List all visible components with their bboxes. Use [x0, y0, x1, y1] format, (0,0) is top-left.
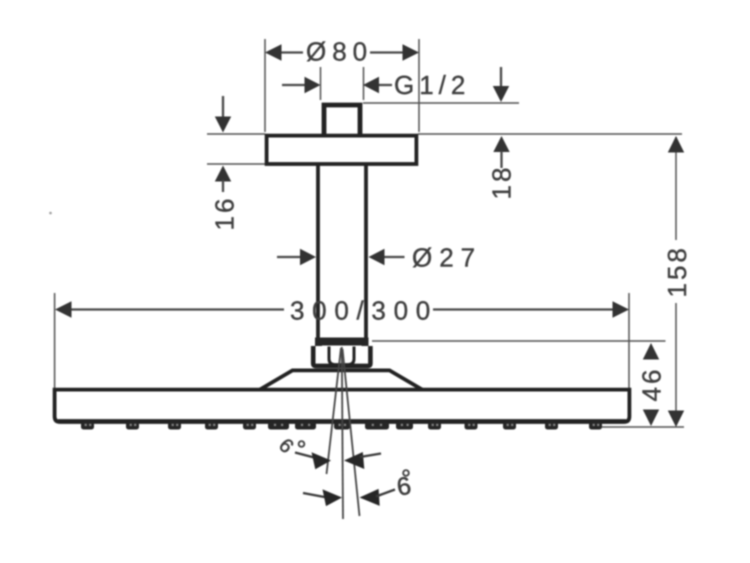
- dimension 300/300 extension line right: [628, 293, 630, 390]
- lower 6-degree right leader: [376, 490, 395, 497]
- dimension 300/300 arrow right: [613, 301, 630, 317]
- dimension Ø80 dimension line: [280, 51, 303, 53]
- upper 6-degree right leader: [360, 454, 381, 458]
- flange bottom reference line left: [207, 163, 265, 165]
- dimension Ø80 extension line right: [418, 39, 420, 132]
- svg-text:16: 16: [210, 196, 240, 231]
- nozzle face dots: [85, 424, 600, 426]
- ball joint insert: [329, 347, 354, 365]
- dimension Ø80 extension line left: [264, 39, 266, 132]
- dimension Ø80 arrow left: [265, 44, 282, 60]
- svg-text:°: °: [401, 465, 411, 493]
- stray printing speck: [49, 212, 52, 215]
- shower head bottom face (thicker): [58, 419, 626, 423]
- upper 6-degree right arrowhead: [344, 452, 364, 469]
- dimension 18 upper arrow (down): [500, 67, 502, 87]
- lower 6-degree left leader: [303, 493, 327, 498]
- shower arm pipe left wall: [316, 165, 320, 339]
- shower head body: [55, 390, 630, 422]
- svg-text:300/300: 300/300: [290, 295, 438, 325]
- ceiling flange plate: [267, 136, 417, 164]
- spray left 6-degree line: [327, 348, 342, 474]
- svg-text:Ø27: Ø27: [412, 243, 482, 273]
- svg-text:°: °: [297, 436, 307, 464]
- lower 6-degree right arrowhead: [360, 489, 380, 506]
- collar crimp right: [362, 345, 369, 349]
- dimension Ø80 arrow right: [403, 44, 420, 60]
- bottom reference line (46/158): [602, 426, 684, 428]
- dimension 16 upper arrow (down): [222, 96, 224, 118]
- shower arm pipe right wall: [364, 165, 368, 339]
- svg-text:Ø80: Ø80: [306, 37, 373, 67]
- dimension G1/2 arrow right: [363, 77, 379, 93]
- dimension G1/2 extension line right: [363, 67, 365, 100]
- dimension 46 upper arrow (up): [643, 343, 659, 360]
- dimension 18 lower arrow (up): [493, 136, 509, 152]
- swivel nut: [313, 346, 370, 366]
- dimension 300/300 arrow left: [55, 301, 72, 317]
- dimension 300/300 dimension line: [70, 308, 284, 310]
- spray centre line: [342, 347, 343, 519]
- svg-text:46: 46: [637, 367, 667, 402]
- collar crimp left: [315, 345, 322, 349]
- dimension Ø27 arrow right: [369, 249, 385, 265]
- dimension G1/2 extension line left: [320, 67, 322, 100]
- dimension 158 upper arrow (up): [668, 136, 684, 153]
- pipe end collar (dark bar): [315, 338, 369, 346]
- dimension 300/300 extension line left: [54, 293, 56, 390]
- connector stub (G1/2 thread): [324, 105, 360, 136]
- cone transition to shower head: [260, 370, 422, 389]
- spray nozzles row: [81, 422, 602, 430]
- dimension Ø27 arrow left: [277, 256, 301, 258]
- lower 6-degree left arrowhead: [323, 489, 343, 506]
- dimension 16 lower arrow (up): [215, 166, 231, 182]
- upper 6-degree left leader: [295, 453, 316, 459]
- spray right 6-degree line: [343, 349, 360, 516]
- upper 6-degree left arrowhead: [312, 452, 332, 469]
- dimension 158 dimension line: [675, 137, 677, 240]
- ceiling reference line from stub top: [363, 102, 519, 104]
- dimension 46 top reference line: [372, 340, 666, 342]
- dimension G1/2 arrow left: [282, 84, 305, 86]
- svg-text:G1/2: G1/2: [394, 70, 470, 100]
- svg-text:18: 18: [487, 165, 517, 200]
- flange top reference line left: [207, 133, 265, 135]
- svg-text:158: 158: [662, 245, 692, 297]
- dimension 158 lower arrow (down): [668, 411, 684, 428]
- dimension 46 lower arrow (down): [643, 410, 659, 427]
- flange top reference line right: [418, 133, 682, 135]
